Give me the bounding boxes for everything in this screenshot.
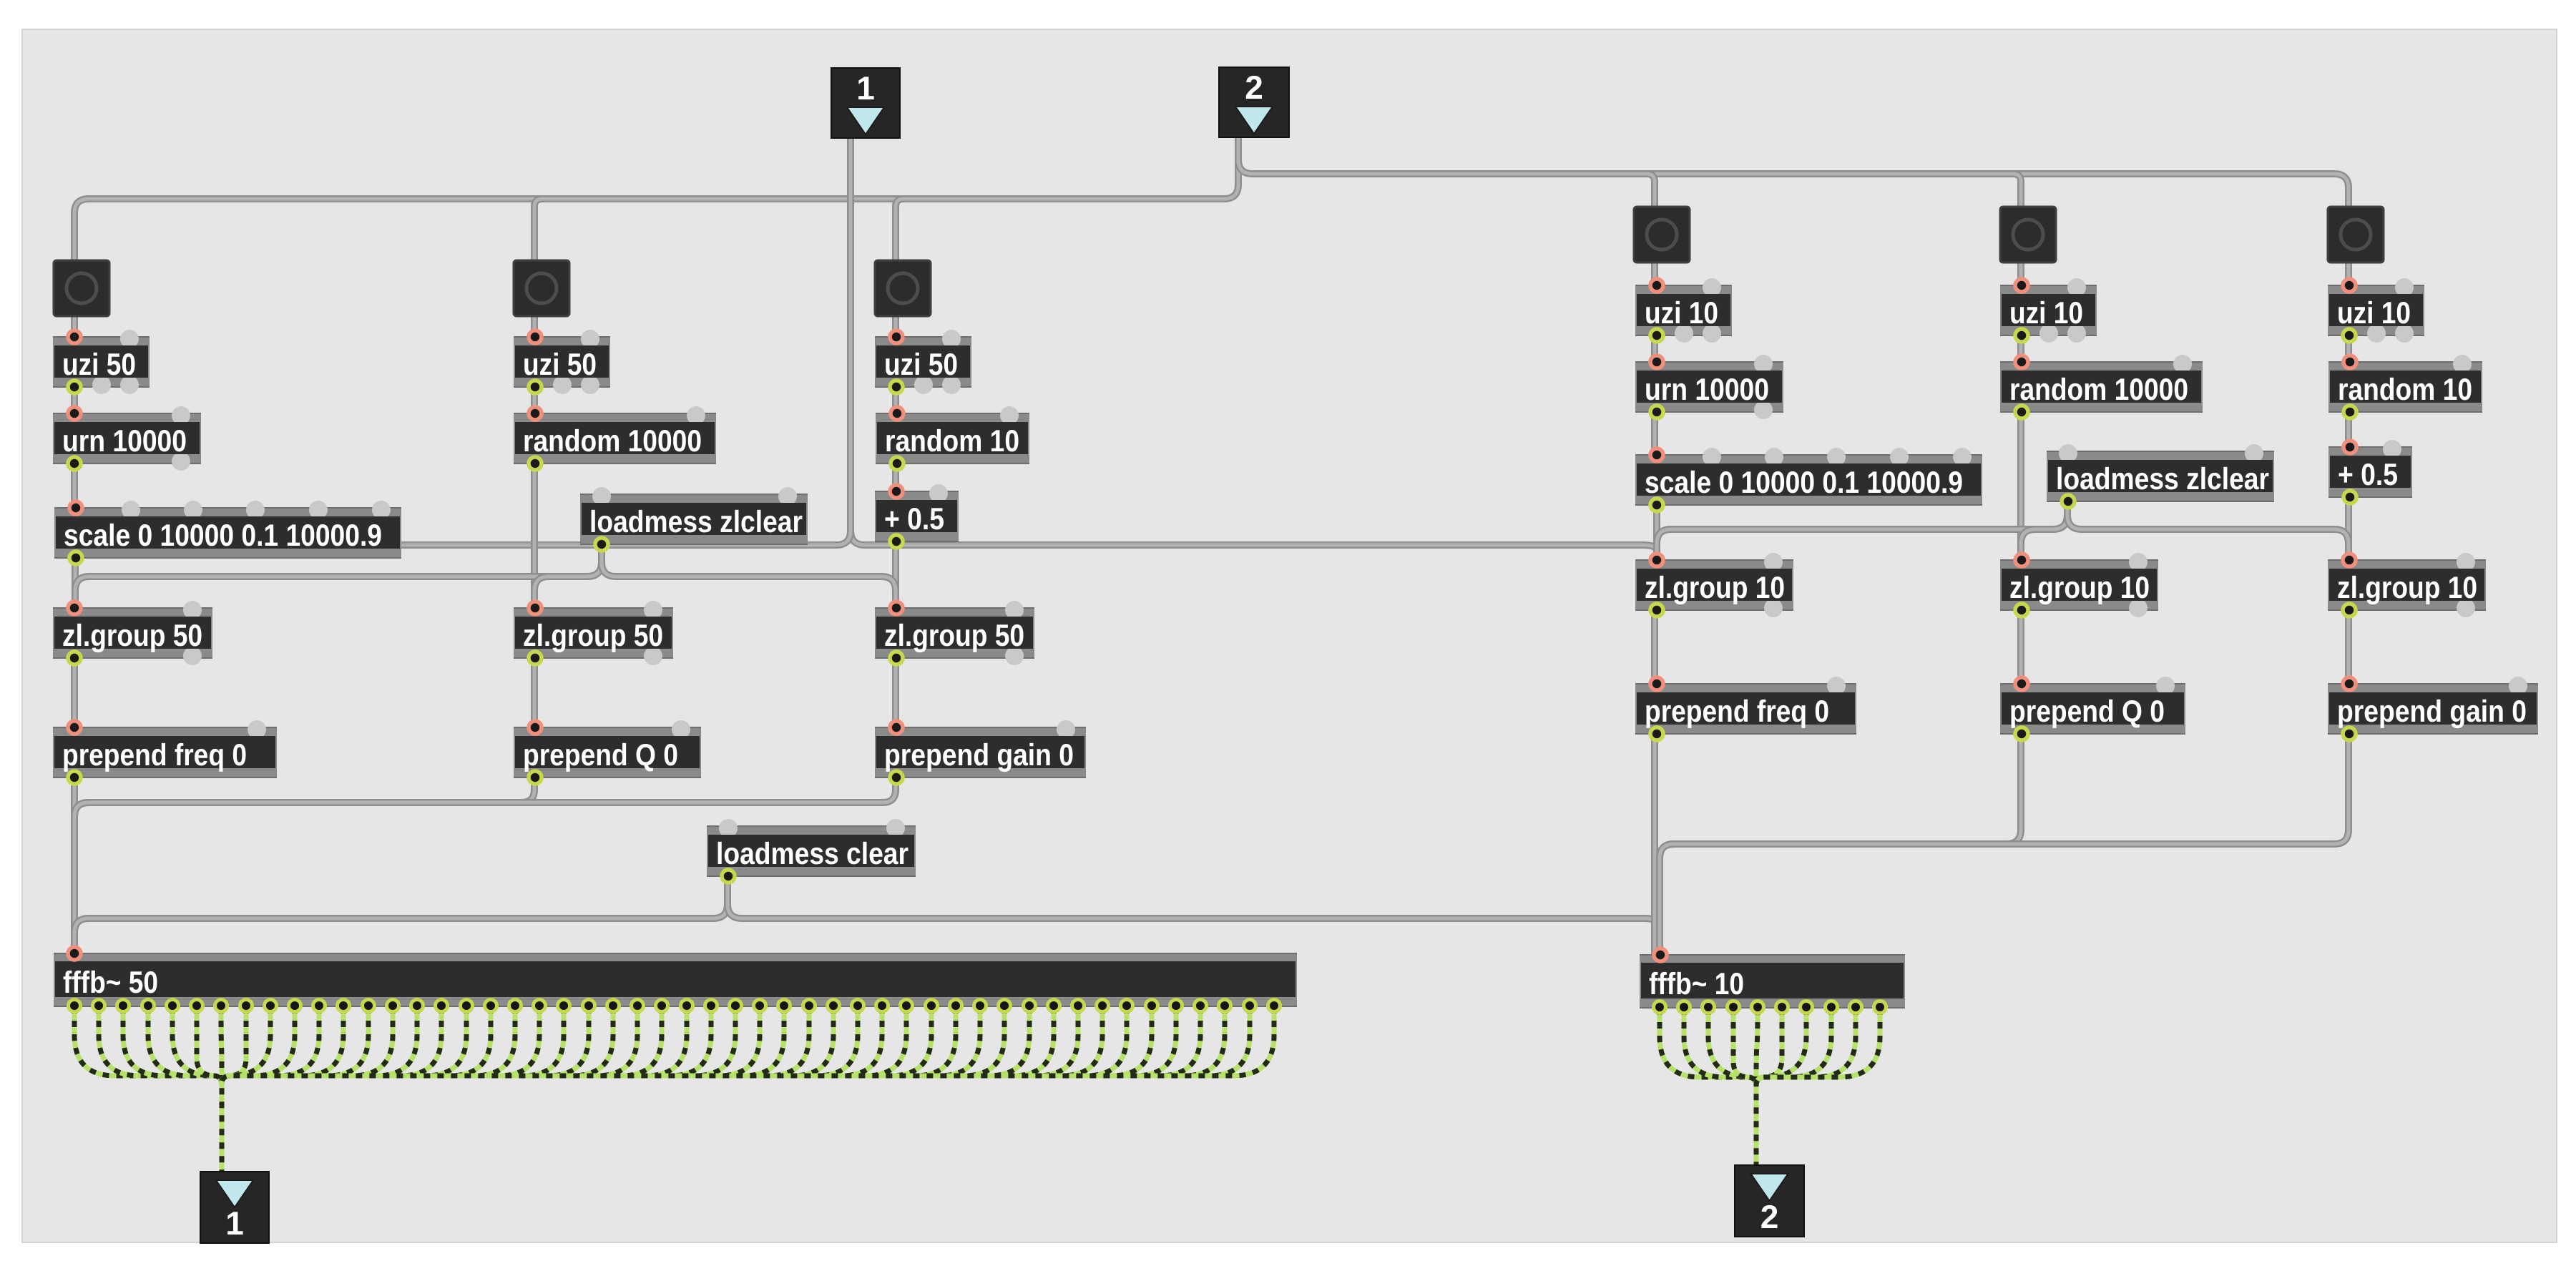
- signal patch cord: [222, 1007, 882, 1172]
- svg-text:urn 10000: urn 10000: [62, 424, 187, 458]
- signal patch cord: [222, 1007, 417, 1172]
- svg-text:random 10000: random 10000: [523, 424, 702, 458]
- signal patch cord: [1756, 1009, 1758, 1167]
- wire zl.group-50 to prepend-gain: [892, 657, 899, 728]
- signal patch cord: [222, 1007, 539, 1172]
- signal patch cord: [222, 1007, 515, 1172]
- object box [prepend Q 0]: [514, 720, 701, 784]
- object box [zl.group 10]: [2328, 553, 2486, 617]
- wire plus-0.5 to zl.group-10 col6: [2345, 496, 2352, 562]
- wire zl.group-10 to prepend-freq (right): [1651, 609, 1658, 684]
- svg-text:zl.group 50: zl.group 50: [523, 619, 663, 653]
- svg-text:scale 0 10000 0.1 10000.9: scale 0 10000 0.1 10000.9: [64, 519, 382, 553]
- wire urn-10000 to scale (right): [1651, 411, 1658, 456]
- wire scale to zl.group-50 col1: [72, 557, 79, 609]
- object box [loadmess clear]: [707, 819, 916, 883]
- patcher outlet 2: [1735, 1165, 1804, 1237]
- svg-text:urn 10000: urn 10000: [1645, 373, 1769, 407]
- signal patch cord: [1756, 1009, 1806, 1167]
- signal patch cord: [222, 1007, 319, 1172]
- wire zl.group-10 to prepend-gain (right): [2345, 609, 2352, 684]
- wire prepend-gain to fffb~10: [1660, 733, 2349, 957]
- object box [fffb~ 50]: [54, 947, 1297, 1012]
- signal patch cord: [1660, 1009, 1756, 1167]
- wire urn-10000 to scale: [71, 463, 78, 509]
- wire prepend-freq to fffb~50: [71, 777, 78, 956]
- object box [prepend gain 0]: [875, 720, 1086, 784]
- object box [uzi 10]: [2000, 278, 2097, 343]
- object box [zl.group 10]: [1635, 553, 1793, 617]
- svg-text:uzi 50: uzi 50: [62, 348, 136, 382]
- object box [urn 10000]: [53, 406, 201, 471]
- object box [loadmess zlclear]: [580, 487, 808, 551]
- signal patch cord: [222, 1007, 931, 1172]
- object box [uzi 50]: [53, 330, 150, 394]
- bang button b4: [1634, 207, 1690, 262]
- object box [random 10]: [2328, 355, 2482, 418]
- wire inlet-2 to button B2: [534, 199, 550, 263]
- signal patch cord: [1756, 1009, 1880, 1167]
- signal patch cord: [197, 1007, 222, 1172]
- object box [prepend freq 0]: [53, 720, 277, 784]
- wire B5 to uzi-10: [2017, 262, 2024, 286]
- signal patch cord: [99, 1007, 222, 1172]
- wire uzi-10 to urn-10000: [1651, 335, 1658, 363]
- wire plus-0.5 to zl.group-50 col3: [892, 541, 899, 609]
- svg-text:zl.group 10: zl.group 10: [1645, 571, 1785, 605]
- patcher inlet 2: [1219, 67, 1289, 137]
- svg-text:1: 1: [225, 1204, 244, 1242]
- signal patch cord: [222, 1007, 1127, 1172]
- wire B3 to uzi-50: [892, 315, 899, 338]
- wire loadmess-clear to fffb~50: [74, 875, 728, 956]
- object box [uzi 50]: [875, 330, 971, 394]
- signal patch cord: [1756, 1009, 1856, 1167]
- signal patch cord: [74, 1007, 222, 1172]
- svg-text:scale 0 10000 0.1 10000.9: scale 0 10000 0.1 10000.9: [1645, 466, 1963, 500]
- svg-text:prepend Q 0: prepend Q 0: [2009, 695, 2165, 729]
- svg-text:loadmess zlclear: loadmess zlclear: [589, 505, 803, 539]
- signal patch cord: [222, 1007, 466, 1172]
- signal patch cord: [222, 1007, 735, 1172]
- svg-text:random 10: random 10: [885, 424, 1019, 458]
- signal patch cord: [222, 1007, 270, 1172]
- signal patch cord: [222, 1007, 246, 1172]
- wire uzi-50 to random-10000: [531, 386, 538, 414]
- svg-text:random 10000: random 10000: [2009, 373, 2188, 407]
- signal patch cord: [1708, 1009, 1756, 1167]
- signal patch cord: [1756, 1009, 1782, 1167]
- svg-text:+ 0.5: + 0.5: [2338, 458, 2398, 492]
- object box [zl.group 50]: [514, 601, 673, 665]
- object box [uzi 10]: [1635, 278, 1732, 343]
- wire uzi-50 to random-10: [892, 386, 899, 414]
- signal patch cord: [222, 1007, 1176, 1172]
- signal patch cord: [222, 1007, 1078, 1172]
- signal patch cord: [222, 1007, 1250, 1172]
- signal patch cord: [222, 1007, 295, 1172]
- svg-text:uzi 50: uzi 50: [523, 348, 597, 382]
- object box [urn 10000]: [1635, 355, 1783, 419]
- signal patch cord: [222, 1007, 1152, 1172]
- object box [scale 0 10000 0.1 10000.9]: [54, 501, 401, 564]
- signal patch cord: [222, 1007, 1102, 1172]
- signal patch cord: [1756, 1009, 1831, 1167]
- signal patch cord: [222, 1007, 906, 1172]
- object box [+ 0.5]: [875, 484, 959, 548]
- signal patch cord: [148, 1007, 222, 1172]
- svg-text:uzi 10: uzi 10: [2009, 296, 2083, 330]
- object box [prepend gain 0]: [2328, 677, 2538, 740]
- svg-text:uzi 10: uzi 10: [1645, 296, 1718, 330]
- wire loadmess-zlclear (right) to zl.group col6: [2067, 501, 2349, 562]
- svg-text:prepend gain 0: prepend gain 0: [2337, 695, 2527, 729]
- signal patch cord: [222, 1007, 1225, 1172]
- patcher inlet 1: [831, 68, 900, 138]
- wire loadmess-zlclear to zl.group col2: [534, 544, 602, 609]
- object box [prepend Q 0]: [2000, 677, 2185, 740]
- signal patch cord: [222, 1007, 1200, 1172]
- svg-text:prepend freq 0: prepend freq 0: [62, 738, 247, 772]
- svg-text:loadmess zlclear: loadmess zlclear: [2056, 462, 2269, 496]
- signal patch cord: [222, 1007, 809, 1172]
- bang button b3: [875, 260, 931, 316]
- svg-text:zl.group 50: zl.group 50: [62, 619, 202, 653]
- wire zl.group-50 to prepend-Q: [531, 657, 538, 728]
- signal patch cord: [1684, 1009, 1756, 1167]
- wire B4 to uzi-10: [1651, 262, 1658, 286]
- svg-text:loadmess clear: loadmess clear: [716, 837, 909, 871]
- signal patch cord: [222, 1007, 980, 1172]
- object box [zl.group 50]: [53, 601, 212, 665]
- bang button b5: [2000, 207, 2056, 262]
- wire prepend-Q to fffb~10: [1660, 733, 2021, 957]
- wire prepend-gain to fffb~50: [74, 777, 896, 956]
- wire zl.group-50 to prepend-freq: [71, 657, 78, 728]
- svg-text:zl.group 10: zl.group 10: [2337, 571, 2477, 605]
- wire loadmess-zlclear (right) to zl.group col4: [1657, 501, 2067, 562]
- wire B2 to uzi-50: [531, 315, 538, 338]
- signal patch cord: [221, 1007, 222, 1172]
- svg-text:zl.group 50: zl.group 50: [884, 619, 1024, 653]
- object box [random 10000]: [2000, 355, 2203, 418]
- svg-text:uzi 50: uzi 50: [884, 348, 958, 382]
- object box [scale 0 10000 0.1 10000.9]: [1635, 448, 1982, 511]
- wire loadmess-zlclear to zl.group col1: [75, 544, 602, 609]
- signal patch cord: [222, 1007, 1054, 1172]
- signal patch cord: [222, 1007, 368, 1172]
- svg-text:2: 2: [1245, 69, 1263, 106]
- svg-text:1: 1: [856, 69, 875, 107]
- signal patch cord: [1733, 1009, 1756, 1167]
- svg-text:fffb~ 50: fffb~ 50: [63, 966, 158, 1000]
- wire random-10000 to zl.group-50 col2: [531, 463, 538, 609]
- signal patch cord: [222, 1007, 711, 1172]
- svg-text:+ 0.5: + 0.5: [884, 502, 944, 536]
- wire inlet-2 to button B1: [74, 136, 1238, 263]
- bang button b6: [2328, 207, 2384, 262]
- wire random-10000 to zl.group-10 col5: [2017, 411, 2024, 562]
- signal patch cord: [222, 1007, 760, 1172]
- svg-text:prepend freq 0: prepend freq 0: [1645, 695, 1829, 729]
- signal patch cord: [222, 1007, 784, 1172]
- signal patch cord: [222, 1007, 833, 1172]
- wire B1 to uzi-50: [71, 315, 78, 338]
- bang button b1: [54, 260, 109, 316]
- signal patch cord: [222, 1007, 393, 1172]
- object box [uzi 50]: [514, 330, 610, 394]
- signal patch cord: [222, 1007, 613, 1172]
- signal patch cord: [222, 1007, 1274, 1172]
- wire inlet-1 to zl.group-50 col1: [75, 531, 851, 609]
- wire random-10 to plus-0.5: [892, 463, 899, 492]
- wire B6 to uzi-10: [2345, 262, 2352, 286]
- signal patch cord: [222, 1007, 441, 1172]
- svg-text:uzi 10: uzi 10: [2337, 296, 2411, 330]
- wire zl.group-10 to prepend-Q (right): [2017, 609, 2024, 684]
- object box [fffb~ 10]: [1640, 948, 1905, 1014]
- wire random-10 to plus-0.5 (right): [2345, 411, 2352, 448]
- wire inlet-2 to button B6: [1238, 136, 2349, 210]
- object box [zl.group 10]: [2000, 553, 2158, 617]
- wire scale to zl.group-10 col4: [1653, 504, 1660, 562]
- signal patch cord: [222, 1007, 956, 1172]
- signal patch cord: [222, 1007, 1004, 1172]
- wire prepend-Q to fffb~50: [74, 777, 534, 956]
- wire inlet-2 to button B5: [2005, 174, 2021, 210]
- signal patch cord: [172, 1007, 222, 1172]
- svg-text:fffb~ 10: fffb~ 10: [1649, 967, 1744, 1001]
- wire loadmess-clear to fffb~10: [728, 875, 1660, 957]
- signal patch cord: [222, 1007, 687, 1172]
- object box [random 10000]: [514, 406, 716, 470]
- signal patch cord: [222, 1007, 589, 1172]
- signal patch cord: [123, 1007, 222, 1172]
- svg-text:prepend Q 0: prepend Q 0: [523, 738, 678, 772]
- wire inlet-2 to button B4: [1639, 174, 1655, 210]
- svg-text:random 10: random 10: [2338, 373, 2472, 407]
- signal patch cord: [222, 1007, 491, 1172]
- wire loadmess-zlclear to zl.group col3: [602, 544, 896, 609]
- wire loadmess-zlclear (right) to zl.group col5: [2021, 501, 2067, 562]
- object box [uzi 10]: [2328, 278, 2424, 343]
- wire inlet-2 to button B3: [896, 199, 911, 263]
- signal patch cord: [222, 1007, 637, 1172]
- signal patch cord: [222, 1007, 662, 1172]
- bang button b2: [514, 260, 569, 316]
- svg-text:prepend gain 0: prepend gain 0: [884, 738, 1074, 772]
- wire uzi-10 to random-10000 (right): [2017, 335, 2024, 363]
- object box [+ 0.5]: [2328, 440, 2412, 504]
- signal patch cord: [222, 1007, 343, 1172]
- wire inlet-1 trunk: [847, 136, 854, 531]
- object box [zl.group 50]: [875, 601, 1034, 665]
- object box [random 10]: [876, 406, 1029, 470]
- object box [prepend freq 0]: [1635, 677, 1856, 740]
- wire prepend-freq to fffb~10: [1655, 733, 1660, 957]
- wire inlet-1 to zl.group-10 col4: [851, 531, 1657, 562]
- svg-text:2: 2: [1760, 1198, 1779, 1235]
- wire uzi-10 to random-10 (right): [2345, 335, 2352, 363]
- signal patch cord: [222, 1007, 564, 1172]
- wire uzi-50 to urn-10000: [71, 386, 78, 414]
- svg-text:zl.group 10: zl.group 10: [2009, 571, 2150, 605]
- signal patch cord: [222, 1007, 858, 1172]
- signal patch cord: [222, 1007, 1029, 1172]
- patcher outlet 1: [200, 1172, 269, 1243]
- object box [loadmess zlclear]: [2047, 444, 2274, 508]
